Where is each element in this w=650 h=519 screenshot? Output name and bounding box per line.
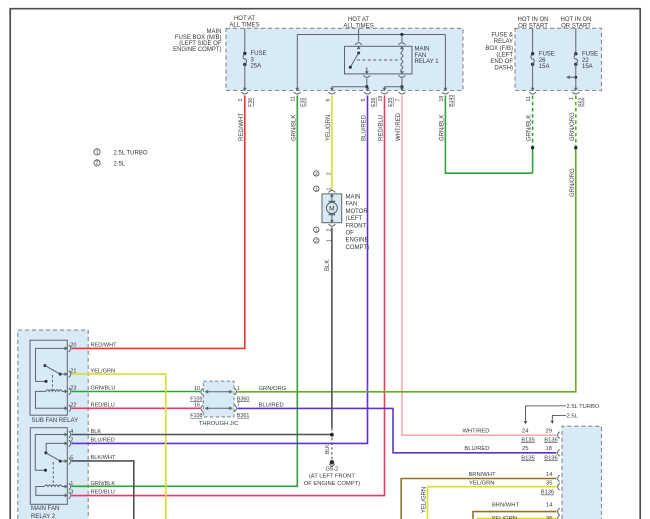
svg-text:B136: B136: [544, 455, 558, 461]
svg-text:OR START: OR START: [518, 23, 548, 29]
svg-text:FUSE: FUSE: [539, 52, 555, 58]
wire BLK from main fan motor to ground splice: [325, 228, 332, 429]
fuse 26 15A: [531, 28, 555, 90]
svg-text:RELAY 2: RELAY 2: [31, 514, 56, 519]
callout arrow 2.5L TURBO column: [524, 404, 600, 424]
wire BLK from main fan relay 2 pin 4 to ground splice: [72, 434, 332, 436]
wire: relay 1 feed from hot at all times: [358, 28, 360, 41]
svg-text:4: 4: [70, 429, 73, 435]
svg-text:BLU/RED: BLU/RED: [362, 114, 368, 141]
svg-text:M: M: [329, 205, 335, 212]
svg-text:1: 1: [96, 150, 99, 156]
svg-text:19: 19: [439, 96, 445, 102]
svg-text:COMPT): COMPT): [346, 245, 370, 251]
relay wire name labels: [91, 343, 118, 496]
svg-text:B136: B136: [544, 437, 558, 443]
svg-text:B143: B143: [449, 95, 455, 107]
wire RED/WHT from fuse 3 to sub fan relay pin 20: [72, 96, 245, 349]
legend variant 1: 2.5L TURBO: [94, 149, 148, 157]
wire BLU/RED from through J/C pin 7 B361 to PCM pins 25/18: [237, 408, 556, 452]
svg-text:FUSE: FUSE: [582, 52, 598, 58]
svg-text:GRN/ORG: GRN/ORG: [570, 168, 576, 197]
main fan relay 2: [30, 428, 73, 519]
wire: M/B internal bus (pin 11 to coil to B143): [297, 33, 445, 91]
svg-text:ALL TIMES: ALL TIMES: [229, 22, 259, 28]
svg-text:B135: B135: [521, 455, 535, 461]
PCM row YEL/GRN pin 36 (bottom, cut off): [492, 515, 560, 519]
svg-text:E36: E36: [371, 97, 377, 106]
wire: relay 1 outputs to box exits: [332, 78, 404, 90]
svg-text:21: 21: [70, 368, 76, 374]
svg-text:MAIN FAN: MAIN FAN: [31, 506, 59, 512]
through J/C junction connector: [190, 381, 249, 427]
wire BLK/WHT from main fan relay 2 pin 5 (off page): [72, 461, 134, 519]
PCM row BRN/WHT pin 14 (row 1): [468, 472, 559, 482]
label BLU/RED at J/C output: [259, 402, 284, 408]
svg-text:23: 23: [70, 386, 76, 392]
M/B exit pin 3 connector F36: [238, 88, 254, 107]
wire GRN/ORG from fuse 22 to through J/C pin 1 B360: [237, 96, 577, 392]
svg-text:1: 1: [569, 97, 575, 100]
svg-text:RED/WHT: RED/WHT: [239, 113, 245, 141]
svg-text:10: 10: [194, 386, 200, 392]
svg-text:E35: E35: [388, 97, 394, 106]
wire RED/BLU from sub fan relay pin 22 to through J/C pin 16 F108: [72, 407, 201, 409]
svg-text:(LEFT: (LEFT: [496, 52, 513, 58]
motor pin 1 (2.5L TURBO) above: [314, 186, 333, 191]
svg-text:BLK: BLK: [325, 260, 331, 271]
svg-text:F36: F36: [248, 98, 254, 107]
svg-text:FRONT: FRONT: [346, 223, 367, 229]
svg-text:BLK: BLK: [91, 429, 102, 435]
svg-text:BLU/RED: BLU/RED: [259, 402, 284, 408]
M/B exit pin 7: [395, 88, 405, 102]
M/B exit pin 19 connector E35: [378, 88, 394, 107]
svg-text:2: 2: [96, 161, 99, 167]
svg-text:HOT IN ON: HOT IN ON: [561, 17, 592, 23]
svg-text:1: 1: [70, 481, 73, 487]
svg-text:2.5L: 2.5L: [114, 161, 126, 167]
svg-text:FUSE &: FUSE &: [491, 33, 513, 39]
svg-text:7: 7: [237, 403, 240, 409]
wire BRN/WHT to PCM pin 14 (row 1, from below): [401, 479, 556, 519]
svg-text:22: 22: [70, 403, 76, 409]
callout arrow 2.5L column: [551, 414, 579, 424]
svg-text:GRN/ORG: GRN/ORG: [259, 386, 287, 392]
svg-text:BLU/RED: BLU/RED: [91, 438, 115, 444]
svg-text:F109: F109: [190, 396, 202, 402]
svg-text:2: 2: [70, 438, 73, 444]
svg-text:B136: B136: [541, 490, 555, 496]
fuse 22 15A: [574, 28, 598, 90]
wire YEL/GRN from sub fan relay pin 21 (to compressor, off page): [72, 374, 166, 519]
svg-text:MOTOR: MOTOR: [346, 209, 369, 215]
legend variant 2: 2.5L: [94, 160, 126, 168]
svg-text:E35: E35: [301, 97, 307, 106]
sub fan relay: [30, 340, 78, 424]
wire YEL/GRN to PCM pin 35 (from below): [421, 487, 556, 519]
svg-text:24: 24: [522, 429, 529, 435]
svg-text:MAIN: MAIN: [415, 47, 430, 53]
svg-text:5: 5: [361, 99, 367, 102]
svg-text:FAN: FAN: [346, 202, 358, 208]
svg-text:F108: F108: [190, 413, 202, 419]
feed label HOT AT ALL TIMES (relay 1): [343, 17, 373, 29]
svg-text:11: 11: [291, 96, 297, 101]
F/B exit pin 1 connector B52: [569, 88, 584, 107]
svg-text:GRN/BLU: GRN/BLU: [91, 386, 116, 392]
svg-text:2.5L TURBO: 2.5L TURBO: [114, 150, 148, 156]
branch arrow to other circuits from fuse 22: [566, 75, 577, 79]
motor pin 2 (below, 2.5L TURBO): [314, 227, 333, 232]
motor pin 2 (2.5L) above: [314, 171, 333, 176]
svg-text:14: 14: [546, 502, 553, 508]
svg-text:19: 19: [378, 96, 384, 102]
M/B exit pin 19 connector B143: [439, 88, 455, 107]
svg-text:16: 16: [194, 403, 200, 409]
svg-text:(LEFT: (LEFT: [346, 216, 363, 222]
M/B exit pin 6: [325, 88, 335, 102]
svg-text:HOT IN ON: HOT IN ON: [518, 17, 549, 23]
svg-text:RED/BLU: RED/BLU: [91, 403, 115, 409]
svg-text:18: 18: [546, 446, 552, 452]
svg-text:(AT LEFT FRONT: (AT LEFT FRONT: [309, 474, 356, 480]
svg-text:BOX (F/B): BOX (F/B): [485, 46, 513, 52]
svg-text:3: 3: [238, 99, 244, 102]
svg-text:RED/BLU: RED/BLU: [91, 490, 115, 496]
main fan motor M1: [322, 190, 369, 251]
svg-text:ENGINE COMPT): ENGINE COMPT): [173, 47, 221, 53]
svg-text:B52: B52: [579, 97, 585, 106]
svg-text:END OF: END OF: [490, 59, 513, 65]
svg-text:FUSE: FUSE: [251, 51, 267, 57]
feed label HOT AT ALL TIMES (fuse 3): [229, 16, 259, 28]
svg-text:G5-2: G5-2: [325, 466, 338, 472]
svg-text:GRN/ORG: GRN/ORG: [570, 112, 576, 141]
svg-text:14: 14: [546, 472, 553, 478]
ground G5-2: [304, 428, 360, 487]
svg-text:WHT/RED: WHT/RED: [462, 429, 489, 435]
motor pin 1 (below, 2.5L): [314, 238, 333, 243]
svg-text:RELAY 1: RELAY 1: [415, 59, 440, 65]
label GRN/ORG at J/C output: [259, 386, 287, 392]
fuse & relay box (F/B) enclosure: [485, 28, 601, 90]
svg-text:B135: B135: [521, 437, 535, 443]
F/B exit pin 11: [526, 88, 536, 102]
feed label HOT IN ON OR START (fuse 26): [518, 17, 549, 29]
svg-text:YEL/GRN: YEL/GRN: [91, 368, 116, 374]
svg-text:OF ENGINE COMPT): OF ENGINE COMPT): [304, 481, 360, 487]
wire GRN/BLK from M/B pin 19 B143 to fuse 26: [439, 96, 532, 174]
wire BLU/RED from M/B pin 5 to main fan relay 2 pin 2: [72, 96, 368, 444]
svg-text:GRN/BLK: GRN/BLK: [439, 115, 445, 141]
PCM connector: [562, 426, 602, 519]
svg-text:20: 20: [70, 343, 76, 349]
svg-text:WHT/RED: WHT/RED: [396, 112, 402, 141]
svg-text:29: 29: [546, 429, 552, 435]
svg-text:11: 11: [526, 96, 532, 101]
svg-text:B360: B360: [237, 396, 250, 402]
wire YEL/GRN from M/B pin 6 to main fan motor: [326, 96, 332, 191]
PCM row BLU/RED pins 25/18 B135/B136: [464, 446, 559, 461]
svg-text:2: 2: [326, 229, 332, 232]
svg-text:BRN/WHT: BRN/WHT: [492, 502, 520, 508]
feed label HOT IN ON OR START (fuse 22): [561, 17, 592, 29]
svg-text:2: 2: [326, 172, 332, 175]
M/B exit pin 11 connector E35: [291, 88, 307, 107]
svg-text:BLU/RED: BLU/RED: [464, 446, 489, 452]
main fan relay 1: [345, 43, 440, 78]
wire WHT/RED from M/B pin 7 to PCM pins 24/29: [396, 96, 557, 436]
PCM row WHT/RED pins 24/29 B135/B136: [462, 429, 559, 444]
svg-text:26: 26: [539, 58, 546, 64]
svg-text:RED/BLU: RED/BLU: [379, 115, 385, 141]
svg-text:35: 35: [546, 481, 552, 487]
PCM row BRN/WHT pin 14 (row 2): [492, 502, 560, 515]
svg-text:MAIN: MAIN: [346, 195, 361, 201]
svg-text:ENGINE: ENGINE: [346, 238, 369, 244]
main fuse box (M/B) enclosure: [173, 28, 463, 90]
svg-text:7: 7: [395, 99, 401, 102]
wire GRN/BLK from fuse 26 (dashed option) with splice: [527, 96, 535, 174]
svg-text:GRN/BLK: GRN/BLK: [91, 481, 116, 487]
svg-text:SUB FAN RELAY: SUB FAN RELAY: [32, 418, 79, 424]
svg-text:6: 6: [325, 99, 331, 102]
svg-text:RED/WHT: RED/WHT: [91, 343, 118, 349]
svg-text:1: 1: [326, 239, 332, 242]
svg-text:3: 3: [70, 490, 73, 496]
svg-text:HOT AT: HOT AT: [348, 17, 369, 23]
svg-text:2.5L TURBO: 2.5L TURBO: [567, 404, 600, 410]
svg-text:GRN/BLK: GRN/BLK: [291, 115, 297, 141]
svg-text:B361: B361: [237, 413, 250, 419]
svg-text:BLK/WHT: BLK/WHT: [91, 455, 116, 461]
wire BRN/WHT to PCM pin 14 (row 2, from below): [473, 512, 557, 519]
svg-text:FAN: FAN: [415, 53, 427, 59]
wire YEL/GRN to PCM pin 36 (from below, bottom edge): [478, 517, 557, 519]
svg-text:15A: 15A: [539, 64, 550, 70]
wire GRN/BLU from sub fan relay pin 23 to through J/C pin 10 F109: [72, 391, 201, 393]
svg-text:OF: OF: [346, 231, 355, 237]
svg-text:25: 25: [522, 446, 528, 452]
svg-text:YEL/GRN: YEL/GRN: [469, 481, 494, 487]
wire RED/BLU from M/B pin 19 to main fan relay 2 pin 3: [72, 96, 385, 496]
svg-text:DASH): DASH): [494, 66, 513, 72]
svg-text:BLK: BLK: [325, 444, 331, 454]
wire GRN/BLK from M/B pin 11 to main fan relay 2 pin 1: [72, 96, 298, 487]
svg-text:5: 5: [70, 455, 73, 461]
svg-text:1: 1: [237, 386, 240, 392]
svg-text:25A: 25A: [251, 64, 262, 70]
svg-text:BRN/WHT: BRN/WHT: [468, 472, 496, 478]
svg-text:RELAY: RELAY: [494, 39, 513, 45]
M/B exit pin 5 connector E36: [361, 88, 377, 107]
svg-text:THROUGH J/C: THROUGH J/C: [199, 421, 239, 427]
svg-text:YEL/GRN: YEL/GRN: [421, 487, 427, 513]
svg-text:1: 1: [326, 188, 332, 191]
fan relay unit enclosure: [18, 330, 88, 519]
svg-text:HOT AT: HOT AT: [234, 16, 255, 22]
svg-text:15A: 15A: [582, 64, 593, 70]
svg-text:YEL/GRN: YEL/GRN: [326, 115, 332, 141]
svg-text:2.5L: 2.5L: [567, 414, 579, 420]
PCM row YEL/GRN pin 35 B136: [469, 481, 560, 496]
svg-text:GRN/BLK: GRN/BLK: [527, 115, 533, 141]
fuse 3 25A: [243, 28, 266, 90]
svg-text:22: 22: [582, 58, 589, 64]
